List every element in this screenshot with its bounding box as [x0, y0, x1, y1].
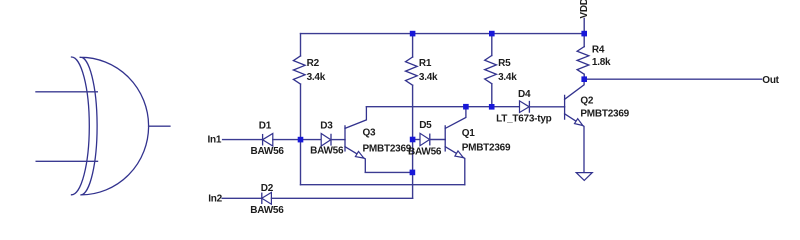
wire Q3 emitter rail to node B — [365, 171, 412, 173]
node junction Q1 collector — [463, 104, 469, 110]
resistor R1 — [406, 34, 418, 140]
diode D5 — [420, 133, 430, 145]
svg-text:BAW56: BAW56 — [310, 146, 344, 157]
ground — [576, 173, 592, 181]
resistor R4 — [577, 34, 589, 80]
svg-text:R1: R1 — [419, 58, 432, 69]
wire bottom rail to Q1 emitter — [301, 184, 465, 186]
node junction VDD / R4 — [581, 31, 587, 37]
node junction R1 top — [410, 31, 416, 37]
diode D1 — [263, 134, 273, 147]
svg-text:Q1: Q1 — [462, 128, 476, 139]
node junction R5 bottom — [489, 104, 495, 110]
wire node A vertical (R2 / D1 / D3 / emitter rail) — [300, 140, 302, 185]
xor gate U1 body — [80, 57, 148, 195]
resistor R2 — [293, 34, 305, 140]
svg-text:3.4k: 3.4k — [419, 72, 438, 83]
svg-text:Out: Out — [762, 75, 779, 86]
svg-text:3.4k: 3.4k — [307, 72, 326, 83]
xor gate U1 output wire — [149, 125, 170, 127]
wire Out net — [584, 78, 761, 80]
svg-text:D4: D4 — [518, 89, 531, 100]
wire D5 to Q1 base — [430, 139, 445, 141]
wire In2 segment — [222, 197, 262, 199]
svg-text:In2: In2 — [208, 194, 222, 205]
svg-text:R5: R5 — [498, 58, 511, 69]
node junction R4 bottom / Out — [581, 76, 587, 82]
wire node A to D3 — [301, 139, 322, 141]
svg-text:R2: R2 — [307, 58, 320, 69]
svg-text:Q2: Q2 — [580, 95, 594, 106]
wire In1 segment — [223, 139, 263, 141]
xor gate U1 input wire 2 — [36, 160, 97, 162]
diode D4 — [520, 101, 530, 113]
node junction Q3 emitter — [410, 170, 416, 176]
wire top rail VDD net — [301, 33, 585, 35]
wire D1 to node A — [273, 139, 301, 141]
diode D3 — [321, 134, 331, 147]
wire VDD stub — [583, 18, 585, 33]
wire node B vertical (R1 / D5 / In2) — [412, 140, 414, 199]
node junction B (R1/D5) — [410, 137, 416, 143]
svg-text:VDD: VDD — [579, 0, 590, 19]
svg-text:LT_T673-typ: LT_T673-typ — [496, 113, 552, 124]
xor gate U1 outer back curve — [72, 57, 90, 195]
node junction A (In1/D1/D3/R2) — [298, 137, 304, 143]
svg-text:In1: In1 — [208, 134, 222, 145]
svg-text:BAW56: BAW56 — [250, 205, 284, 216]
svg-text:BAW56: BAW56 — [251, 146, 285, 157]
svg-text:3.4k: 3.4k — [498, 72, 517, 83]
node junction R5 top — [489, 31, 495, 37]
svg-text:PMBT2369: PMBT2369 — [580, 109, 629, 120]
xor gate U1 input wire 1 — [36, 91, 97, 93]
resistor R5 — [485, 34, 497, 107]
transistor Q2 — [565, 80, 585, 172]
svg-text:D3: D3 — [320, 121, 333, 132]
wire node B to D5 — [413, 139, 420, 141]
transistor Q3 — [345, 107, 366, 173]
transistor Q1 — [445, 107, 466, 185]
wire D4 to Q2 base — [529, 106, 564, 108]
wire collector rail Q3/Q1/R5 to D4 — [366, 106, 519, 108]
svg-text:1.8k: 1.8k — [592, 57, 611, 68]
svg-text:D2: D2 — [261, 183, 274, 194]
wire D2 to node B — [271, 197, 412, 199]
svg-text:PMBT2369: PMBT2369 — [363, 143, 412, 154]
svg-text:R4: R4 — [592, 45, 605, 56]
svg-text:D5: D5 — [419, 120, 432, 131]
diode D2 — [262, 192, 272, 204]
svg-text:PMBT2369: PMBT2369 — [462, 142, 511, 153]
svg-text:Q3: Q3 — [363, 128, 377, 139]
wire D3 to Q3 base — [331, 139, 345, 141]
svg-text:D1: D1 — [259, 120, 272, 131]
svg-text:BAW56: BAW56 — [408, 146, 442, 157]
